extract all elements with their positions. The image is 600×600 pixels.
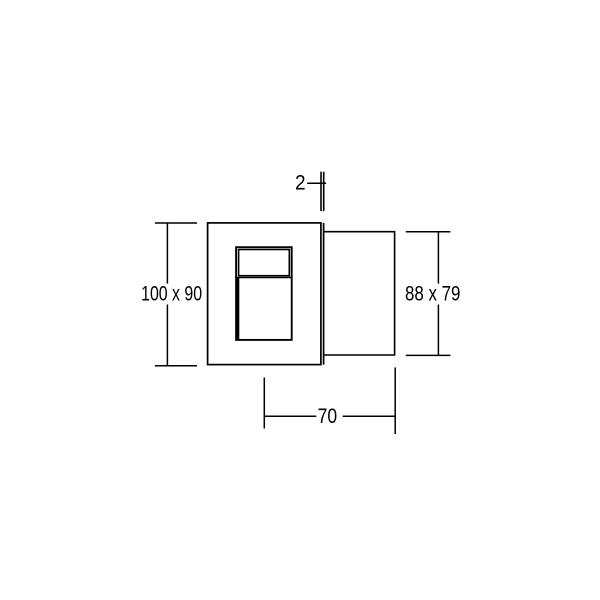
svg-text:70: 70 xyxy=(318,404,338,428)
svg-text:100 x 90: 100 x 90 xyxy=(141,282,202,306)
svg-text:2: 2 xyxy=(295,171,306,195)
svg-text:88 x 79: 88 x 79 xyxy=(405,282,461,306)
